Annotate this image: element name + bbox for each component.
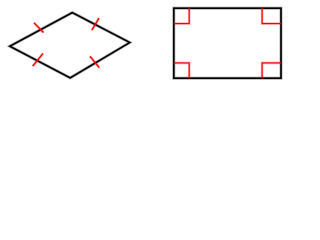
right-angle mark at top-left corner of rectangle bbox=[174, 8, 189, 23]
right-angle mark at top-right corner of rectangle bbox=[262, 8, 281, 23]
tick mark on top-right side of rhombus bbox=[92, 18, 99, 30]
right-angle mark at bottom-left corner of rectangle bbox=[174, 63, 189, 78]
right-angle mark at bottom-right corner of rectangle bbox=[262, 63, 281, 78]
tick mark on top-left side of rhombus bbox=[34, 23, 44, 33]
rectangle (right figure, four right angles marked) bbox=[174, 8, 281, 78]
tick mark on bottom-left side of rhombus bbox=[33, 54, 43, 67]
tick mark on bottom-right side of rhombus bbox=[90, 56, 99, 67]
rhombus (left figure, all four sides marked congruent) bbox=[10, 13, 130, 78]
